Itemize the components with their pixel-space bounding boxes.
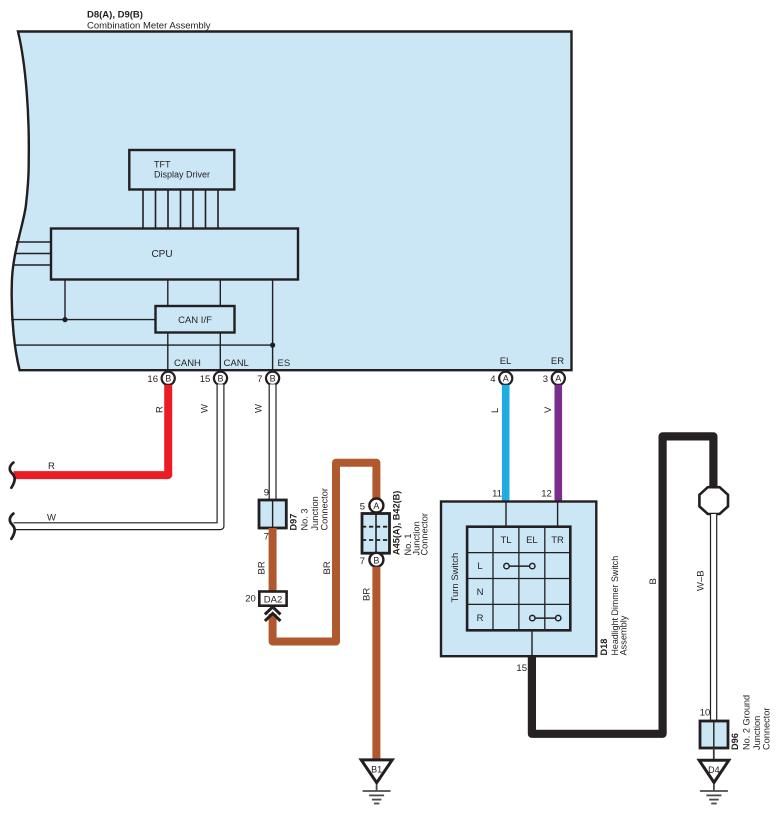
svg-text:7: 7 [360,556,365,567]
svg-text:B: B [373,555,379,565]
svg-text:No. 2 Ground: No. 2 Ground [742,695,752,750]
svg-text:D4: D4 [708,765,720,775]
svg-text:BR: BR [362,588,373,601]
svg-text:20: 20 [245,594,256,605]
junction node dot [62,317,67,322]
wire break symbol (R) [10,463,15,488]
svg-text:12: 12 [541,489,552,500]
wire break symbol (W) [10,514,15,539]
svg-text:B: B [648,578,659,584]
svg-text:Connector: Connector [320,488,330,530]
svg-text:W: W [200,404,211,413]
wire CANH internal [167,280,169,371]
svg-text:R: R [477,613,484,624]
svg-text:No. 3: No. 3 [300,509,310,531]
svg-text:L: L [477,561,482,572]
ground B1 [361,760,392,804]
svg-text:B: B [165,374,171,384]
wire BR DA2 to A45 [273,463,377,642]
svg-text:Display Driver: Display Driver [154,170,210,180]
svg-text:Junction: Junction [310,496,320,530]
svg-text:11: 11 [492,489,502,500]
svg-text:BR: BR [322,561,333,574]
svg-text:10: 10 [700,708,711,719]
terminal 4 (A) [490,372,512,385]
svg-text:7: 7 [257,374,262,385]
svg-text:15: 15 [516,663,527,674]
ground D4 [699,760,729,803]
junction connector A45(A)/B42(B) pin A [369,499,383,513]
svg-text:D8(A), D9(B): D8(A), D9(B) [87,10,143,21]
CPU left stub wires [13,242,51,265]
D18 internal wires [506,502,558,657]
svg-text:L: L [490,408,501,413]
wire BR A45 to B1 ground [372,567,380,760]
svg-text:Assembly: Assembly [619,615,629,655]
svg-text:9: 9 [264,488,269,499]
junction connector D97 [259,500,286,528]
wire V purple ER [554,385,562,502]
svg-text:ES: ES [278,358,291,369]
terminal 7 (B) [257,372,279,385]
svg-text:3: 3 [543,374,548,385]
wire D96 to D4 [713,748,715,760]
svg-text:N: N [477,587,484,598]
combination meter assembly box D8(A)/D9(B) [12,32,572,371]
svg-text:4: 4 [490,374,495,385]
svg-text:R: R [48,461,55,472]
TFT display driver block [129,150,234,190]
svg-text:R: R [155,406,166,413]
svg-text:CANL: CANL [224,358,249,369]
svg-text:ER: ER [551,356,564,367]
wires TFT to CPU [143,190,218,229]
svg-text:D97: D97 [288,514,298,531]
junction connector A45 body [362,514,390,554]
svg-text:Connector: Connector [761,708,771,750]
svg-text:Connector: Connector [420,513,430,555]
svg-text:7: 7 [264,532,269,543]
svg-text:B1: B1 [371,765,382,775]
terminal 16 (B) [147,372,174,385]
turn switch table [467,527,570,631]
junction node dot ES [270,343,275,348]
svg-text:A: A [555,374,561,384]
svg-text:CANH: CANH [174,358,201,369]
svg-text:15: 15 [200,374,211,385]
svg-text:A45(A), B42(B): A45(A), B42(B) [392,491,402,555]
svg-text:A: A [503,374,509,384]
svg-text:Turn Switch: Turn Switch [450,553,461,603]
headlight dimmer switch D18 body [441,502,596,657]
wire CPU to CAN I/F left [11,280,156,320]
svg-text:V: V [543,406,554,413]
contact L row [504,563,535,568]
svg-text:A: A [373,501,379,511]
svg-text:DA2: DA2 [264,595,282,606]
terminal 3 (A) [543,372,565,385]
wire ES internal [15,280,273,371]
svg-text:B: B [270,374,276,384]
svg-text:B: B [217,374,223,384]
svg-text:CPU: CPU [151,249,172,260]
junction connector A45 pin B [369,553,383,567]
wire CANL internal [219,280,221,371]
shield chevrons [265,607,281,621]
wire L cyan EL [502,385,510,502]
svg-text:D96: D96 [730,733,740,750]
svg-text:D18: D18 [599,639,609,656]
svg-text:TR: TR [551,535,564,546]
wire BR D97 to DA2 [269,528,277,592]
wire W white CANL [14,384,221,526]
terminal 15 (B) [200,372,227,385]
CPU block [51,229,298,280]
svg-text:16: 16 [147,374,158,385]
svg-text:EL: EL [526,535,538,546]
svg-text:BR: BR [257,561,268,574]
noise filter octagon [699,487,728,514]
svg-text:CAN I/F: CAN I/F [178,315,212,326]
svg-text:W: W [47,513,56,524]
svg-text:W: W [254,404,265,413]
svg-text:Combination Meter Assembly: Combination Meter Assembly [87,21,211,32]
svg-text:TFT: TFT [154,160,171,170]
svg-text:EL: EL [500,356,512,367]
wire W-B white [710,514,717,721]
CAN I/F block [156,306,235,333]
wire B black D18 to octagon [532,436,714,733]
ground junction connector D96 [700,721,728,748]
contact R row [530,615,561,620]
svg-text:5: 5 [360,502,365,513]
wire W white ES to D97 [269,384,277,500]
svg-text:W–B: W–B [696,570,707,591]
wire R red CANH [14,385,169,475]
connector DA2 [259,592,286,606]
svg-text:TL: TL [500,535,511,546]
